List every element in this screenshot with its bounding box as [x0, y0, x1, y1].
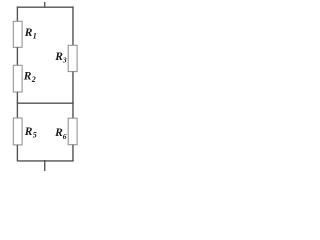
resistor R5: [13, 118, 22, 145]
wire: mid junction to R6: [72, 102, 74, 118]
svg-text:R2: R2: [23, 70, 36, 84]
wire: R1 to R2: [16, 47, 18, 65]
resistor R6: [68, 118, 77, 145]
wire: R6 to bottom bus: [72, 145, 74, 161]
wire: R2 to mid junction: [16, 92, 18, 103]
resistor R3: [68, 45, 77, 71]
resistor R2: [13, 65, 22, 92]
svg-text:R5: R5: [24, 126, 37, 140]
wire: bottom bus: [17, 160, 74, 162]
wire: bottom stub to edge: [44, 160, 46, 171]
wire: top bus: [17, 6, 74, 8]
svg-text:R6: R6: [54, 127, 67, 141]
wire: right rail top to R3: [72, 6, 74, 45]
wire: R5 to bottom bus: [16, 145, 18, 161]
resistor R1: [13, 21, 22, 47]
svg-text:R1: R1: [24, 27, 37, 41]
wire: R3 to mid junction: [72, 72, 74, 104]
svg-text:R3: R3: [54, 51, 67, 65]
wire: mid junction to R5: [16, 102, 18, 118]
wire: middle bus: [17, 102, 74, 104]
wire: top stub at node: [44, 2, 46, 8]
wire: left rail top to R1: [16, 6, 18, 21]
